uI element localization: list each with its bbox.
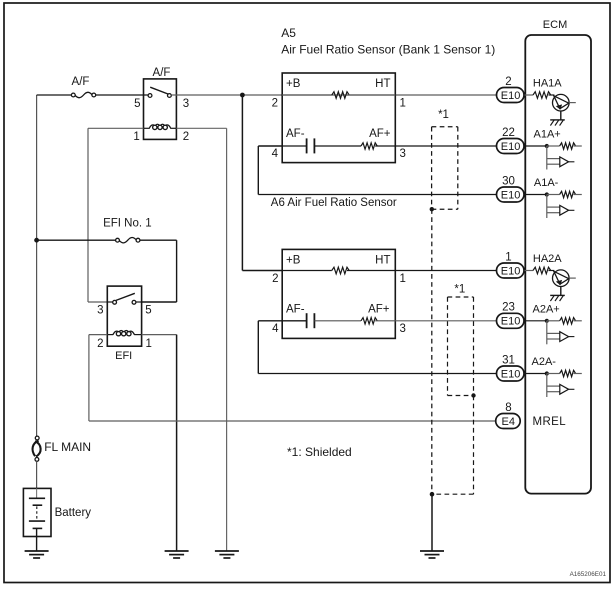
svg-text:*1: *1: [454, 284, 465, 296]
svg-text:EFI No. 1: EFI No. 1: [103, 217, 152, 229]
svg-text:Battery: Battery: [55, 507, 92, 519]
svg-text:4: 4: [272, 148, 279, 160]
svg-text:A6 Air Fuel Ratio Sensor: A6 Air Fuel Ratio Sensor: [271, 197, 397, 209]
svg-text:3: 3: [400, 148, 406, 160]
svg-text:E10: E10: [501, 189, 521, 201]
svg-text:*1: *1: [438, 109, 449, 121]
svg-text:E4: E4: [502, 416, 515, 428]
svg-text:31: 31: [502, 354, 515, 366]
svg-text:E10: E10: [501, 265, 521, 277]
svg-text:A/F: A/F: [153, 67, 171, 79]
svg-text:2: 2: [183, 131, 189, 143]
svg-text:+B: +B: [286, 78, 301, 90]
svg-text:FL MAIN: FL MAIN: [44, 440, 91, 454]
svg-text:MREL: MREL: [533, 416, 567, 428]
svg-text:1: 1: [400, 273, 406, 285]
svg-text:E10: E10: [501, 90, 521, 102]
svg-text:AF-: AF-: [286, 128, 305, 140]
svg-text:A5: A5: [281, 26, 296, 40]
svg-text:2: 2: [505, 76, 511, 88]
svg-text:1: 1: [400, 98, 406, 110]
svg-text:HA1A: HA1A: [533, 78, 562, 90]
svg-text:HA2A: HA2A: [533, 253, 562, 265]
svg-text:E10: E10: [501, 368, 521, 380]
svg-text:A1A-: A1A-: [534, 177, 559, 189]
svg-text:2: 2: [272, 98, 278, 110]
svg-text:HT: HT: [375, 255, 390, 267]
svg-text:A165206E01: A165206E01: [570, 571, 607, 578]
svg-text:A/F: A/F: [72, 76, 90, 88]
svg-text:2: 2: [272, 273, 278, 285]
svg-text:22: 22: [502, 127, 515, 139]
svg-text:3: 3: [97, 304, 103, 316]
svg-text:30: 30: [502, 175, 515, 187]
svg-text:2: 2: [97, 338, 103, 350]
svg-text:3: 3: [400, 323, 406, 335]
svg-text:E10: E10: [501, 316, 521, 328]
svg-text:5: 5: [134, 98, 140, 110]
svg-text:Air Fuel Ratio Sensor (Bank 1: Air Fuel Ratio Sensor (Bank 1 Sensor 1): [281, 43, 495, 57]
svg-text:8: 8: [505, 402, 511, 414]
svg-text:*1: Shielded: *1: Shielded: [287, 445, 352, 459]
svg-text:1: 1: [133, 131, 139, 143]
svg-text:5: 5: [145, 304, 151, 316]
svg-text:AF-: AF-: [286, 304, 305, 316]
svg-text:23: 23: [502, 302, 515, 314]
svg-text:A1A+: A1A+: [534, 129, 561, 141]
svg-text:AF+: AF+: [368, 304, 390, 316]
svg-text:A2A-: A2A-: [532, 356, 557, 368]
svg-text:EFI: EFI: [115, 350, 132, 362]
svg-text:HT: HT: [375, 78, 390, 90]
svg-text:AF+: AF+: [369, 128, 391, 140]
svg-text:1: 1: [146, 338, 152, 350]
svg-text:ECM: ECM: [543, 19, 567, 31]
svg-text:A2A+: A2A+: [533, 304, 560, 316]
svg-text:+B: +B: [286, 255, 301, 267]
svg-text:4: 4: [272, 323, 279, 335]
svg-text:3: 3: [183, 98, 189, 110]
svg-text:1: 1: [505, 251, 511, 263]
svg-text:E10: E10: [501, 141, 521, 153]
